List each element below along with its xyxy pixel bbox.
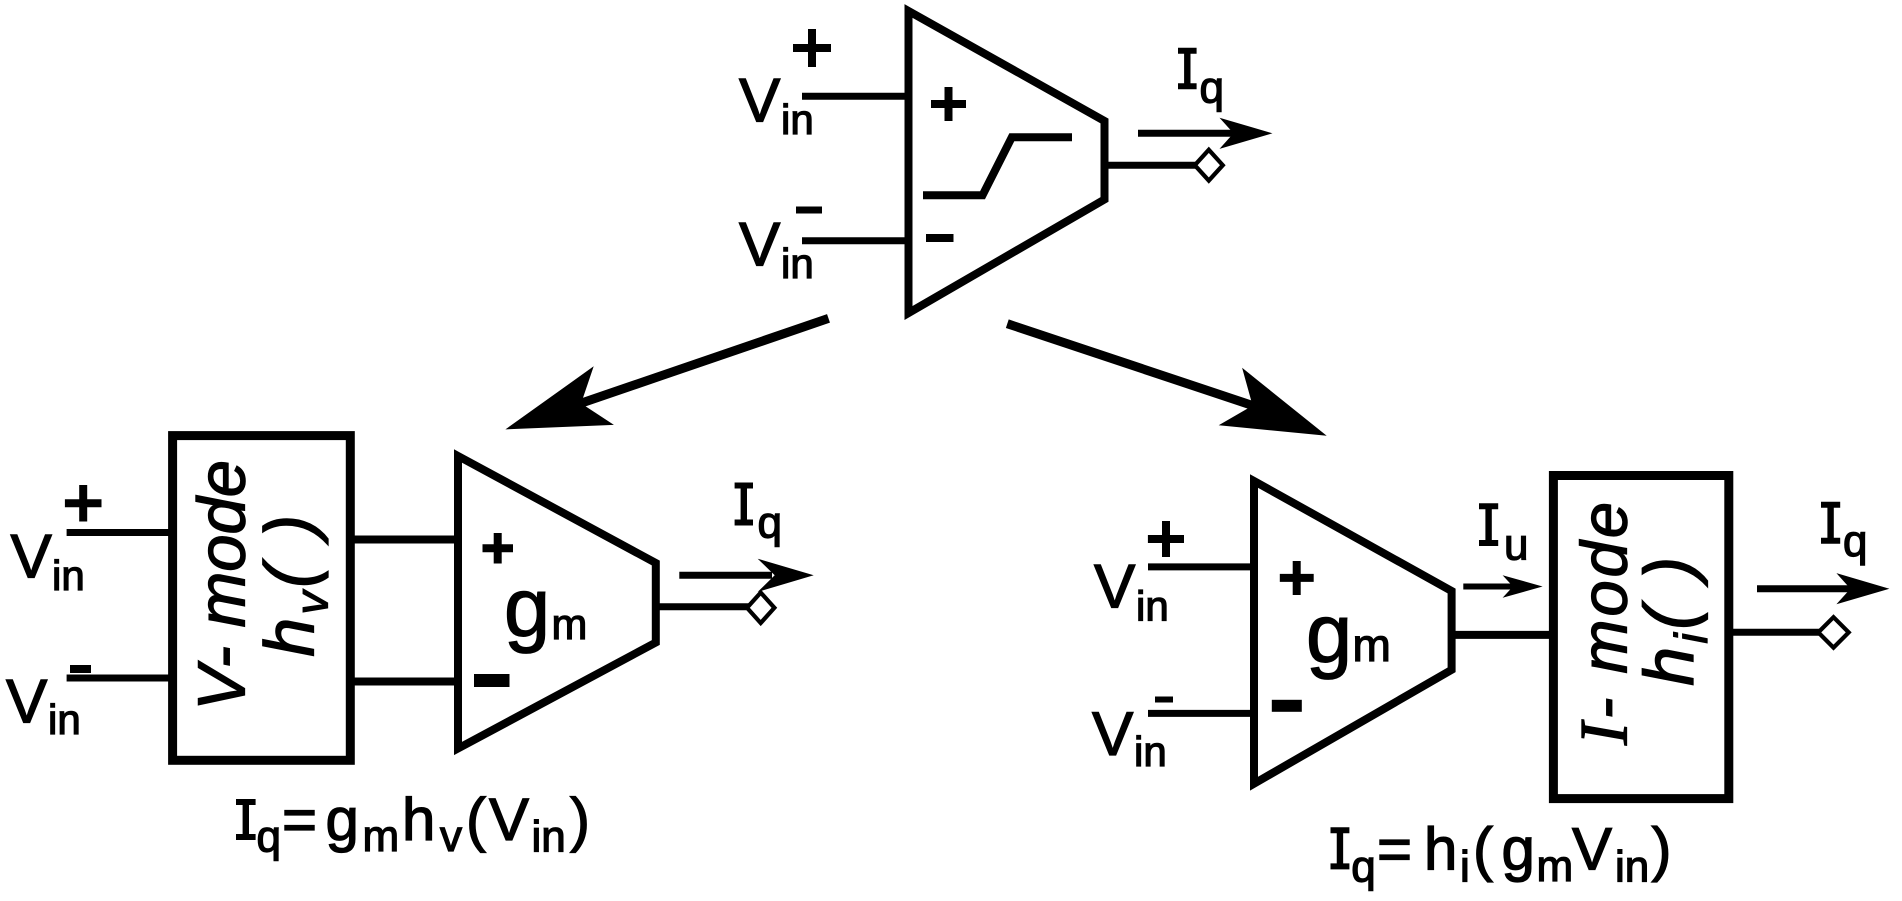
svg-text:in: in: [1134, 728, 1167, 775]
label Vin+ plus sign: [793, 29, 831, 67]
sigmoid transfer curve inside U1: [923, 137, 1072, 195]
block B1 V-mode hv(): [173, 436, 351, 761]
svg-text:m: m: [363, 812, 400, 861]
svg-text:V: V: [1092, 700, 1134, 769]
wire Vin- to U3: [1148, 710, 1254, 717]
equation Iq=gmhv(Vin): [236, 786, 590, 862]
U1 plus input marker: [931, 87, 966, 121]
block B2 I-mode hi(): [1553, 476, 1728, 799]
svg-text:g: g: [1502, 816, 1535, 883]
op-amp U2 (gm OTA, left): [458, 456, 656, 749]
arrow Iq output current of U1: [1138, 130, 1238, 137]
wire U1 output: [1105, 162, 1197, 169]
wire Vin+ to U3: [1148, 563, 1254, 570]
label Vin- minus sign (right diagram): [1155, 697, 1173, 703]
svg-text:V: V: [1572, 816, 1612, 883]
svg-text:i: i: [1460, 843, 1470, 892]
svg-text:(: (: [466, 786, 486, 853]
wire B1 to U2 (+): [350, 536, 458, 544]
svg-text:): ): [1652, 816, 1672, 883]
arrow Iu current: [1463, 584, 1516, 590]
svg-text:h: h: [1424, 816, 1457, 883]
svg-text:V: V: [739, 211, 781, 280]
svg-text:u: u: [1504, 521, 1528, 570]
wire Vin- to block B1: [67, 675, 173, 682]
U3 minus input marker: [1272, 700, 1302, 712]
svg-text:hi( ): hi( ): [1630, 553, 1717, 686]
svg-text:h: h: [402, 786, 435, 853]
svg-text:in: in: [532, 813, 566, 862]
svg-text:g: g: [504, 561, 550, 654]
arrow Iq output current of U2: [679, 572, 772, 579]
arrow Iq output current (right): [1757, 585, 1852, 592]
svg-text:in: in: [52, 552, 85, 599]
svg-text:q: q: [1200, 64, 1224, 113]
wire U3 output to block B2: [1452, 631, 1553, 639]
U2 plus input marker: [483, 533, 514, 564]
svg-text:(: (: [1473, 816, 1493, 883]
op-amp U1 (top nonlinear OTA body): [909, 11, 1105, 313]
equation Iq=hi(gmVin): [1331, 816, 1672, 892]
svg-text:=: =: [1377, 816, 1412, 883]
label Vin+ plus sign (right diagram): [1148, 521, 1184, 557]
svg-text:q: q: [1351, 843, 1375, 892]
svg-text:in: in: [781, 96, 814, 143]
diamond output port of B2: [1818, 617, 1848, 647]
svg-text:m: m: [1537, 842, 1574, 891]
diamond output port of U1: [1195, 150, 1223, 181]
svg-text:q: q: [1843, 517, 1867, 566]
arrow from U1 to V-mode decomposition (left): [567, 318, 829, 408]
U1 minus input marker: [926, 234, 954, 242]
svg-text:in: in: [781, 240, 814, 287]
svg-text:=: =: [282, 786, 317, 853]
wire Vin- to U1: [802, 237, 908, 244]
svg-text:v: v: [440, 812, 462, 861]
U3 plus input marker: [1280, 561, 1314, 595]
wire B2 output to diamond: [1729, 629, 1820, 636]
svg-text:in: in: [1136, 583, 1169, 630]
label Iq of U1: [1178, 48, 1197, 90]
label Iq of U2: [735, 483, 753, 526]
wire B1 to U2 (-): [350, 678, 458, 686]
svg-text:V: V: [11, 523, 53, 592]
svg-text:V: V: [739, 67, 781, 136]
label Vin+ plus sign (left diagram): [65, 485, 102, 522]
svg-text:in: in: [48, 696, 81, 743]
diamond output port of U2: [747, 593, 774, 623]
svg-text:V: V: [489, 786, 529, 853]
arrow from U1 to I-mode decomposition (right): [1007, 324, 1266, 410]
svg-text:): ): [570, 786, 590, 853]
wire Vin+ to block B1: [67, 529, 173, 536]
label Vin- minus sign: [796, 207, 822, 214]
svg-text:m: m: [552, 601, 588, 649]
svg-text:V- mode: V- mode: [185, 460, 260, 711]
label Iu: [1479, 503, 1498, 546]
svg-text:V: V: [6, 668, 48, 737]
wire U2 output: [656, 603, 750, 610]
label Iq (right): [1821, 502, 1840, 544]
svg-text:V: V: [1094, 553, 1136, 622]
label Vin- minus sign (left diagram): [70, 665, 91, 673]
svg-text:q: q: [758, 499, 782, 548]
svg-text:q: q: [257, 813, 281, 862]
svg-text:hv( ): hv( ): [251, 511, 338, 657]
svg-text:g: g: [1306, 587, 1352, 680]
wire Vin+ to U1: [802, 93, 908, 100]
svg-text:m: m: [1353, 619, 1391, 671]
svg-text:in: in: [1615, 843, 1649, 892]
U2 minus input marker: [474, 674, 510, 687]
svg-text:g: g: [326, 786, 359, 853]
op-amp U3 (gm OTA, right): [1254, 481, 1452, 784]
